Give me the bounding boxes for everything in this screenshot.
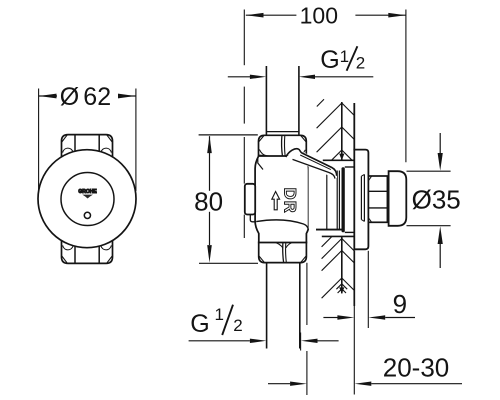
dim 100	[246, 14, 297, 16]
svg-text:2: 2	[356, 54, 365, 73]
body waist line	[256, 220, 308, 230]
svg-text:G: G	[190, 310, 209, 338]
wall lower: face line	[353, 250, 355, 306]
wall flange (rosette)	[354, 150, 368, 250]
cartridge boss	[245, 184, 255, 215]
spout hood	[286, 149, 337, 179]
small screw circle	[84, 212, 90, 218]
dim 80	[199, 134, 258, 136]
wall upper: hole top cut	[323, 159, 354, 161]
dim ext line right (Ø62)	[135, 89, 137, 192]
dim 9	[367, 251, 369, 328]
dim 20-30	[306, 351, 308, 395]
cartridge step lines	[258, 158, 263, 170]
wall upper: centre line	[341, 102, 343, 160]
outlet pipe bottom	[266, 262, 268, 348]
svg-text:DR: DR	[280, 188, 298, 214]
ext line G1/2 bottom right	[300, 333, 302, 351]
hex nut bottom (front view)	[62, 239, 113, 263]
union nut top (side)	[259, 135, 307, 157]
hex nut top (front view)	[62, 135, 113, 159]
arrowhead Ø62 left	[39, 94, 57, 99]
wall lower: end triangle	[339, 287, 344, 293]
svg-text:GROHE: GROHE	[78, 189, 97, 195]
wall upper: face line	[353, 103, 355, 150]
svg-text:1: 1	[215, 305, 224, 324]
outlet cylinder through wall	[309, 167, 355, 230]
wall lower: hole bottom cut	[322, 235, 354, 237]
valve body block	[255, 156, 309, 243]
svg-text:Ø: Ø	[60, 83, 79, 111]
gasket ring at wall	[342, 167, 345, 232]
wall upper hatching	[317, 99, 355, 160]
svg-text:Ø35: Ø35	[412, 184, 461, 214]
wall upper: end triangle	[339, 154, 344, 161]
svg-text:G: G	[320, 46, 339, 74]
knob face inner circle	[61, 173, 114, 226]
dim ext line 100 right	[405, 10, 407, 163]
svg-text:62: 62	[83, 83, 111, 111]
washer under pipe	[266, 131, 299, 133]
wall lower hatching	[322, 237, 355, 299]
union nut bottom (side)	[259, 241, 307, 263]
marking arrow (up)	[272, 192, 280, 210]
svg-text:1: 1	[340, 47, 349, 66]
ext line from union nut edge	[306, 263, 308, 325]
hex adapter	[368, 176, 387, 222]
knob	[389, 171, 407, 226]
svg-text:2: 2	[233, 316, 242, 335]
dim ext line left (Ø62)	[38, 89, 40, 192]
dim Ø35	[407, 170, 451, 172]
inlet pipe top	[265, 66, 267, 135]
svg-text:100: 100	[300, 3, 338, 29]
dim ext line 100 left	[243, 10, 245, 239]
knob face outer circle	[38, 150, 136, 248]
svg-text:20-30: 20-30	[383, 353, 450, 383]
arrowhead Ø62 right	[118, 94, 136, 99]
ring behind hex	[360, 176, 362, 219]
wall lower: centre line	[341, 237, 343, 294]
dim line Ø62	[39, 95, 57, 97]
svg-text:80: 80	[194, 187, 223, 217]
svg-text:9: 9	[393, 289, 407, 319]
